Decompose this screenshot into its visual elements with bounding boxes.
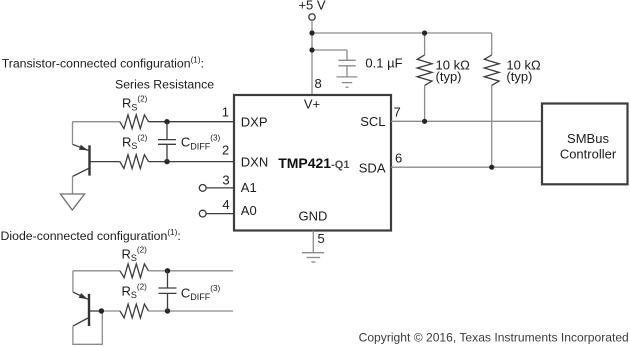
svg-text:A1: A1 — [241, 180, 257, 195]
node: base-collector tie junction — [99, 308, 104, 313]
svg-text:3: 3 — [222, 172, 229, 187]
resistor RS3 — [120, 264, 149, 278]
wire: RS4 to DXN net — [149, 310, 234, 312]
wire: RS1 to DXP pin 1 — [149, 121, 235, 123]
node: diode config lower CDIFF junction — [165, 308, 170, 313]
svg-text:0.1 µF: 0.1 µF — [365, 55, 402, 70]
svg-text:+5 V: +5 V — [298, 0, 325, 13]
svg-text:4: 4 — [222, 197, 229, 212]
capacitor CDIFF (diode config) — [159, 271, 177, 311]
svg-text:2: 2 — [222, 143, 229, 158]
wire: RS2 to DXN pin 2 — [149, 161, 235, 163]
svg-text:GND: GND — [299, 209, 328, 224]
pin A1 stub with open circle — [199, 185, 234, 192]
wire SCL bus — [391, 120, 542, 122]
svg-text:(typ): (typ) — [506, 69, 532, 84]
svg-text:8: 8 — [315, 76, 322, 91]
svg-text:A0: A0 — [241, 203, 257, 218]
svg-text:SMBus: SMBus — [567, 131, 609, 146]
ground (GND pin 5) — [302, 253, 324, 262]
wire: base lead to RS2 — [91, 161, 120, 163]
wire SDA bus — [391, 166, 542, 168]
wire: emitter lead to RS1 — [73, 121, 120, 123]
resistor RP1 10 kOhm (SCL pull-up) — [417, 33, 432, 121]
node: SDA / RP2 junction — [489, 165, 494, 170]
svg-text:1: 1 — [222, 105, 229, 120]
supply terminal +5 V — [298, 0, 325, 20]
node: junction bypass branch — [309, 47, 314, 52]
node: junction +5V / top rail — [309, 30, 314, 35]
wire: RS3 to DXP net — [149, 270, 234, 272]
resistor RS4 — [120, 304, 149, 318]
transistor Q1 (PNP, transistor-connected) — [73, 122, 90, 194]
IC U1 TMP421-Q1 — [234, 95, 391, 231]
svg-text:(typ): (typ) — [436, 69, 462, 84]
wire: bypass branch — [312, 49, 347, 51]
svg-text:Controller: Controller — [560, 146, 617, 161]
svg-text:SDA: SDA — [359, 160, 386, 175]
resistor RS2 — [120, 155, 149, 169]
capacitor C1 0.1 uF — [338, 50, 355, 77]
resistor RS1 — [120, 115, 149, 129]
GND pin 5 stub — [312, 231, 314, 253]
wire: top rail to pull-ups — [312, 32, 492, 34]
svg-text:6: 6 — [395, 151, 402, 166]
wire: +5V vertical to V+ pin 8 — [311, 20, 313, 95]
svg-text:Transistor-connected configura: Transistor-connected configuration(1): — [2, 56, 204, 71]
svg-text:SCL: SCL — [360, 114, 385, 129]
node: DXN / CDIFF junction — [164, 159, 169, 164]
svg-text:V+: V+ — [304, 96, 320, 111]
svg-text:DXP: DXP — [241, 115, 268, 130]
ground (bypass capacitor) — [337, 77, 358, 87]
wire: emitter lead to RS3 — [73, 270, 120, 272]
resistor RP2 10 kOhm (SDA pull-up) — [484, 33, 499, 167]
svg-text:DXN: DXN — [241, 154, 268, 169]
svg-text:Copyright © 2016, Texas Instru: Copyright © 2016, Texas Instruments Inco… — [359, 331, 629, 345]
pin A0 stub with open circle — [199, 210, 234, 217]
svg-text:7: 7 — [394, 105, 401, 120]
node: DXP / CDIFF junction — [164, 119, 169, 124]
svg-text:Series Resistance: Series Resistance — [115, 77, 214, 91]
node: SCL / RP1 junction — [422, 119, 427, 124]
svg-text:5: 5 — [318, 231, 325, 246]
ground (Q1 collector, triangle) — [60, 194, 84, 210]
wire: base lead to RS4 — [101, 310, 120, 312]
node: RP1 to top rail — [422, 30, 427, 35]
transistor Q2 (PNP, diode-connected) — [73, 271, 102, 345]
svg-text:Diode-connected configuration(: Diode-connected configuration(1): — [1, 228, 181, 243]
node: diode config upper CDIFF junction — [165, 268, 170, 273]
SMBus controller block — [542, 104, 628, 185]
capacitor CDIFF (transistor config) — [158, 122, 176, 162]
